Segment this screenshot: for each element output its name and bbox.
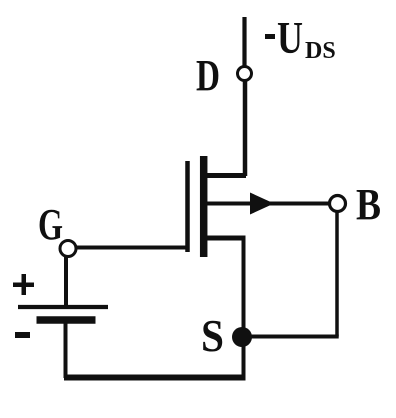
wire G terminal down to battery positive	[64, 257, 68, 308]
battery V1 negative plate (short thick)	[37, 316, 96, 324]
transistor M1 gate bar	[185, 161, 190, 252]
terminal D (open circle)	[238, 67, 252, 81]
transistor M1 channel bar	[200, 156, 208, 257]
wire bottom return	[64, 375, 246, 381]
wire drain vertical	[243, 81, 248, 176]
svg-text:DS: DS	[305, 38, 336, 64]
svg-text:U: U	[277, 12, 303, 63]
svg-text:B: B	[356, 180, 381, 229]
wire drain top stub to -UDS supply	[242, 17, 246, 66]
battery V1 positive plate (long thin)	[18, 305, 108, 309]
transistor M1 drain tap	[203, 173, 246, 178]
transistor M1 bulk tap wire to B	[207, 202, 330, 206]
label -UDS (negative drain supply voltage)	[265, 12, 336, 64]
svg-text:S: S	[201, 310, 224, 361]
svg-text:G: G	[38, 200, 63, 249]
wire B vertical down	[335, 211, 339, 337]
node S (solid junction dot)	[232, 327, 252, 347]
transistor M1 source tap	[203, 236, 246, 241]
wire battery negative to bottom return	[64, 321, 68, 378]
svg-text:D: D	[196, 51, 220, 100]
wire S node to B branch horizontal	[242, 335, 339, 339]
label + (battery positive)	[13, 274, 34, 295]
transistor M1 bulk arrow (points right, out of channel)	[250, 193, 274, 215]
label - (battery negative)	[15, 332, 30, 338]
terminal G (open circle)	[60, 241, 76, 257]
terminal B (open circle)	[330, 196, 346, 212]
wire gate horizontal	[77, 246, 189, 250]
wire source vertical (through S node)	[242, 238, 246, 378]
